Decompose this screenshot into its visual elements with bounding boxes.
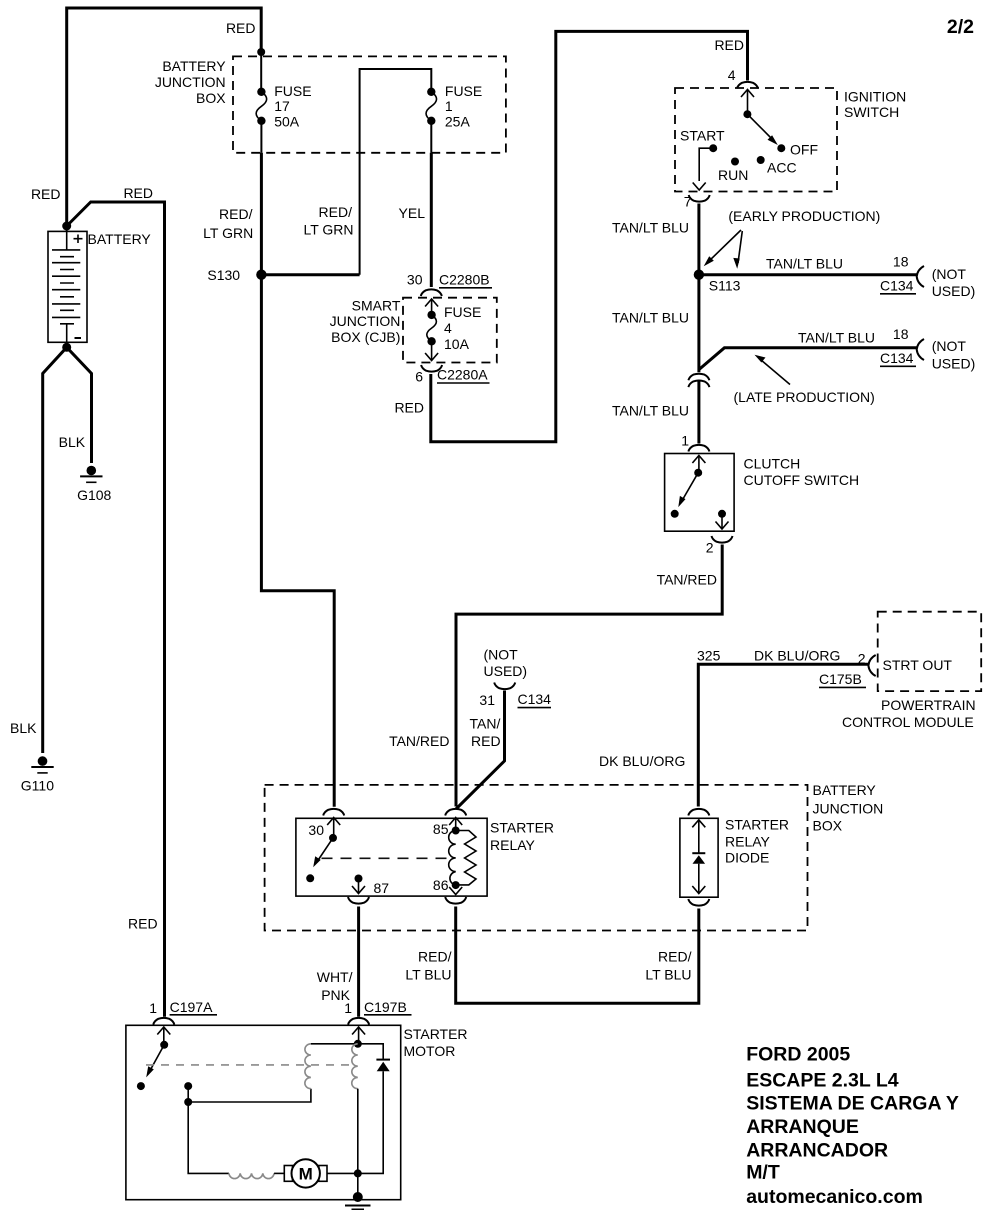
svg-text:BATTERY: BATTERY: [813, 782, 877, 798]
starter relay box: [296, 818, 487, 896]
motor armature coil: [229, 1173, 274, 1178]
svg-text:BATTERY: BATTERY: [162, 58, 226, 74]
motor brush right: [319, 1166, 327, 1182]
svg-text:RED: RED: [31, 186, 61, 202]
svg-text:30: 30: [407, 272, 423, 288]
svg-text:TAN/LT BLU: TAN/LT BLU: [612, 403, 689, 419]
motor contact node lower: [184, 1098, 192, 1106]
pin 4 arrow into box: [741, 90, 754, 98]
fuse F17: [257, 88, 265, 96]
svg-text:WHT/: WHT/: [317, 969, 353, 985]
svg-text:JUNCTION: JUNCTION: [330, 313, 401, 329]
svg-text:TAN/LT BLU: TAN/LT BLU: [766, 256, 843, 272]
svg-text:(NOT: (NOT: [932, 266, 967, 282]
wire START to pin 7: [699, 148, 713, 181]
wire hold-in coil to motor node: [357, 1089, 359, 1174]
svg-text:TAN/LT BLU: TAN/LT BLU: [612, 310, 689, 326]
motor solenoid switch pivot: [160, 1041, 168, 1049]
svg-text:C134: C134: [518, 691, 552, 707]
svg-text:87: 87: [374, 880, 390, 896]
svg-text:6: 6: [415, 369, 423, 385]
svg-text:50A: 50A: [274, 114, 300, 130]
svg-text:STARTER: STARTER: [725, 817, 789, 833]
battery B1: [48, 231, 87, 342]
svg-text:M/T: M/T: [746, 1162, 780, 1184]
arrow to S113: [708, 230, 742, 263]
connector pin 87 relay: [348, 897, 369, 904]
starter relay diode box: [680, 818, 718, 897]
svg-text:TAN/: TAN/: [470, 716, 501, 732]
svg-text:M: M: [299, 1165, 313, 1184]
svg-text:SISTEMA DE CARGA Y: SISTEMA DE CARGA Y: [746, 1092, 959, 1114]
clutch switch arm: [682, 473, 699, 502]
svg-text:RED: RED: [394, 400, 424, 416]
connector C2280A pin 6: [421, 365, 442, 372]
svg-text:START: START: [680, 128, 725, 144]
contact ACC: [757, 156, 765, 164]
node S130 splice: [256, 270, 266, 280]
node S113 splice: [694, 270, 704, 280]
svg-text:ARRANQUE: ARRANQUE: [746, 1116, 859, 1138]
svg-text:1: 1: [681, 433, 689, 449]
svg-text:C2280B: C2280B: [439, 272, 490, 288]
svg-text:CONTROL MODULE: CONTROL MODULE: [842, 714, 974, 730]
wire BLK battery to G108: [67, 347, 92, 463]
svg-text:10A: 10A: [444, 336, 470, 352]
svg-text:STRT OUT: STRT OUT: [883, 657, 953, 673]
svg-text:RED: RED: [123, 185, 153, 201]
wire DK BLU/ORG pin 325 PCM to starter relay diode: [698, 664, 868, 806]
svg-text:FUSE: FUSE: [445, 83, 482, 99]
wire armature to brush: [274, 1172, 284, 1174]
svg-text:MOTOR: MOTOR: [404, 1043, 456, 1059]
relay mechanical linkage (dashed): [322, 857, 449, 859]
wire S130 horizontal: [261, 273, 359, 276]
svg-text:2: 2: [706, 540, 714, 556]
svg-text:IGNITION: IGNITION: [844, 89, 906, 105]
svg-text:RED/: RED/: [658, 949, 692, 965]
pin 1 arrow into box: [692, 456, 705, 464]
battery positive node: [62, 222, 71, 231]
pin arrow C197B into motor: [352, 1027, 365, 1035]
wire TAN/LT BLU late production branch: [699, 348, 917, 370]
motor case ground: [353, 1192, 363, 1202]
svg-text:JUNCTION: JUNCTION: [155, 74, 226, 90]
svg-text:RED: RED: [226, 20, 256, 36]
svg-text:25A: 25A: [445, 114, 471, 130]
svg-text:USED): USED): [932, 356, 976, 372]
svg-text:BOX: BOX: [196, 90, 226, 106]
connector diode bottom: [688, 899, 709, 906]
relay coil resistor: [456, 831, 476, 885]
clutch cutoff switch box: [665, 454, 735, 532]
connector pin 30 relay: [323, 809, 344, 816]
wire TAN/LT BLU pin 7 to S113: [697, 204, 700, 373]
ground G110: [38, 756, 48, 766]
svg-text:ARRANCADOR: ARRANCADOR: [746, 1139, 888, 1161]
svg-text:17: 17: [274, 98, 290, 114]
relay switch arm: [317, 838, 334, 863]
ignition switch arm to OFF: [747, 114, 774, 141]
arrow from late production to wire bend: [761, 360, 790, 385]
starter relay diode connector top: [688, 809, 709, 816]
svg-text:TAN/LT BLU: TAN/LT BLU: [612, 220, 689, 236]
svg-text:1: 1: [344, 1000, 352, 1016]
svg-text:TAN/RED: TAN/RED: [389, 733, 449, 749]
svg-text:4: 4: [444, 320, 452, 336]
svg-text:C2280A: C2280A: [437, 367, 488, 383]
svg-text:30: 30: [308, 822, 324, 838]
svg-text:BOX (CJB): BOX (CJB): [331, 329, 400, 345]
svg-text:RELAY: RELAY: [490, 837, 536, 853]
svg-text:(NOT: (NOT: [484, 647, 519, 663]
diode arrow out: [692, 886, 705, 894]
wire BLK battery to G110: [43, 347, 67, 753]
motor solenoid switch arm: [150, 1045, 165, 1072]
svg-text:1: 1: [445, 98, 453, 114]
svg-text:LT BLU: LT BLU: [405, 967, 451, 983]
wire RED battery positive to fuse 17: [67, 8, 262, 226]
svg-text:TAN/RED: TAN/RED: [657, 572, 717, 588]
ignition switch common pivot: [743, 110, 751, 118]
svg-text:TAN/LT BLU: TAN/LT BLU: [798, 330, 875, 346]
motor contact node upper: [184, 1082, 192, 1090]
node junction dot at battery junction box top: [257, 48, 265, 56]
svg-text:7: 7: [684, 194, 692, 210]
svg-text:JUNCTION: JUNCTION: [813, 801, 884, 817]
svg-text:G108: G108: [77, 487, 111, 503]
svg-text:SMART: SMART: [352, 298, 401, 314]
wire brush to node: [327, 1172, 358, 1174]
svg-text:18: 18: [893, 254, 909, 270]
wire WHT/PNK relay 87 to starter motor: [357, 907, 360, 1017]
motor M1: [292, 1159, 320, 1187]
svg-text:CLUTCH: CLUTCH: [744, 456, 801, 472]
relay contact pin 87: [355, 875, 363, 883]
starter motor box: [126, 1025, 401, 1199]
contact RUN: [731, 158, 739, 166]
motor diode: [376, 1059, 390, 1061]
svg-text:OFF: OFF: [790, 142, 818, 158]
wire coil top link: [311, 1043, 358, 1045]
clutch switch pivot: [694, 469, 702, 477]
svg-text:RED: RED: [128, 916, 158, 932]
svg-text:automecanico.com: automecanico.com: [746, 1186, 923, 1208]
svg-text:RED/: RED/: [418, 949, 452, 965]
svg-text:S130: S130: [207, 267, 240, 283]
pin 87 arrow out: [358, 879, 360, 893]
svg-text:POWERTRAIN: POWERTRAIN: [881, 697, 976, 713]
svg-text:RED: RED: [471, 733, 501, 749]
wire motor internal left: [188, 1086, 229, 1173]
motor mechanical linkage (dashed): [146, 1064, 355, 1066]
svg-text:ESCAPE 2.3L L4: ESCAPE 2.3L L4: [746, 1070, 899, 1092]
ground G108: [87, 466, 97, 476]
in-line connector on TAN/LT BLU wire: [688, 374, 709, 381]
svg-text:S113: S113: [709, 278, 741, 294]
battery plus mark: [74, 235, 83, 244]
pin 85 arrow into relay: [449, 818, 462, 826]
pin 30 arrow into relay: [327, 818, 340, 826]
fuse F1: [427, 88, 435, 96]
motor node at C197B: [354, 1040, 362, 1048]
svg-text:USED): USED): [932, 283, 976, 299]
svg-text:18: 18: [893, 326, 909, 342]
arrow to wire: [738, 231, 742, 263]
svg-text:FORD 2005: FORD 2005: [746, 1044, 850, 1066]
svg-text:YEL: YEL: [399, 205, 426, 221]
smart junction box (dashed): [403, 298, 497, 363]
wire RED/LT GRN fuse 17 to S130 and relay pin 30: [261, 153, 334, 807]
contact dot pin 2: [718, 510, 726, 518]
relay coil node 85: [452, 827, 460, 835]
wire TAN/RED clutch to starter relay pin 85: [456, 545, 722, 807]
svg-text:FUSE: FUSE: [274, 83, 311, 99]
wire TAN/LT BLU S113 to C134 early: [699, 273, 917, 276]
svg-text:G110: G110: [21, 778, 54, 794]
svg-text:CUTOFF SWITCH: CUTOFF SWITCH: [744, 472, 860, 488]
svg-text:LT GRN: LT GRN: [203, 225, 253, 241]
wire RED battery to starter motor C197A: [67, 202, 165, 1017]
pin arrow into SJB: [425, 299, 438, 307]
contact START: [709, 144, 717, 152]
wire branch S130 up to fuse 1: [360, 69, 432, 275]
pin arrow C197A into motor: [157, 1027, 170, 1035]
connector pin 85 relay: [445, 809, 466, 816]
svg-text:STARTER: STARTER: [490, 820, 554, 836]
diode D1: [692, 852, 705, 854]
pin arrow out of SJB: [431, 341, 433, 360]
svg-text:DIODE: DIODE: [725, 850, 769, 866]
svg-text:SWITCH: SWITCH: [844, 104, 899, 120]
svg-text:2: 2: [858, 651, 866, 667]
svg-text:USED): USED): [484, 663, 528, 679]
svg-text:(EARLY PRODUCTION): (EARLY PRODUCTION): [728, 208, 880, 224]
battery negative node: [62, 343, 71, 352]
svg-text:BLK: BLK: [59, 434, 86, 450]
wire RED/LT BLU relay 86 to diode: [456, 907, 699, 1004]
battery junction box 2 (dashed): [265, 785, 808, 931]
svg-text:C134: C134: [880, 350, 914, 366]
svg-text:C197A: C197A: [170, 999, 213, 1015]
svg-text:C134: C134: [880, 278, 914, 294]
svg-text:86: 86: [433, 877, 449, 893]
wire YEL fuse 1 to C2280B: [430, 153, 433, 287]
svg-text:1: 1: [149, 1000, 157, 1016]
svg-text:C197B: C197B: [364, 999, 407, 1015]
powertrain control module box (dashed): [878, 612, 982, 691]
solenoid hold-in coil: [352, 1044, 358, 1089]
svg-text:RED/: RED/: [319, 204, 353, 220]
ignition switch box (dashed): [675, 88, 837, 192]
svg-text:85: 85: [433, 821, 449, 837]
wire TAN/RED stub from C134 pin 31: [456, 691, 505, 810]
svg-text:DK BLU/ORG: DK BLU/ORG: [599, 753, 685, 769]
connector C134 pin 31: [494, 683, 515, 690]
diode arrow in: [692, 820, 705, 828]
pin 86 arrow out: [449, 887, 462, 895]
contact dot lower left: [671, 510, 679, 518]
svg-text:C175B: C175B: [819, 671, 862, 687]
fuse F4: [427, 311, 435, 319]
svg-text:4: 4: [728, 67, 736, 83]
svg-text:RED: RED: [714, 37, 744, 53]
svg-text:STARTER: STARTER: [404, 1026, 468, 1042]
pin 2 arrow out of box: [721, 514, 723, 528]
svg-text:RELAY: RELAY: [725, 834, 771, 850]
svg-text:BLK: BLK: [10, 720, 37, 736]
battery junction box (dashed): [233, 56, 506, 152]
contact OFF: [777, 144, 785, 152]
svg-text:RUN: RUN: [718, 167, 748, 183]
wire TAN/LT BLU to clutch cutoff switch: [697, 380, 700, 444]
svg-text:BOX: BOX: [813, 818, 843, 834]
svg-text:(LATE PRODUCTION): (LATE PRODUCTION): [734, 389, 875, 405]
wire solenoid winding link: [188, 1089, 311, 1102]
motor brush left: [284, 1166, 292, 1182]
relay coil node 86: [452, 881, 460, 889]
svg-text:ACC: ACC: [767, 160, 797, 176]
svg-text:LT GRN: LT GRN: [303, 222, 353, 238]
relay switch pivot: [329, 834, 337, 842]
svg-text:325: 325: [697, 648, 721, 664]
wire RED C2280A to ignition switch pin 4: [431, 31, 748, 441]
svg-text:RED/: RED/: [219, 206, 253, 222]
svg-text:BATTERY: BATTERY: [88, 231, 152, 247]
wire to motor diode: [358, 1044, 383, 1059]
motor ground node: [354, 1169, 362, 1177]
svg-text:2/2: 2/2: [947, 16, 974, 38]
solenoid pull-in coil: [305, 1044, 311, 1089]
svg-text:31: 31: [479, 692, 495, 708]
wire lead into fuse 17: [260, 52, 262, 92]
svg-text:(NOT: (NOT: [932, 338, 967, 354]
motor switch contact left: [137, 1082, 145, 1090]
svg-text:LT BLU: LT BLU: [645, 967, 691, 983]
relay coil: [449, 831, 456, 886]
svg-text:FUSE: FUSE: [444, 304, 481, 320]
battery minus mark: [75, 337, 82, 339]
wire to case ground: [357, 1173, 359, 1197]
svg-text:DK BLU/ORG: DK BLU/ORG: [754, 648, 840, 664]
connector pin 86 relay: [445, 897, 466, 904]
